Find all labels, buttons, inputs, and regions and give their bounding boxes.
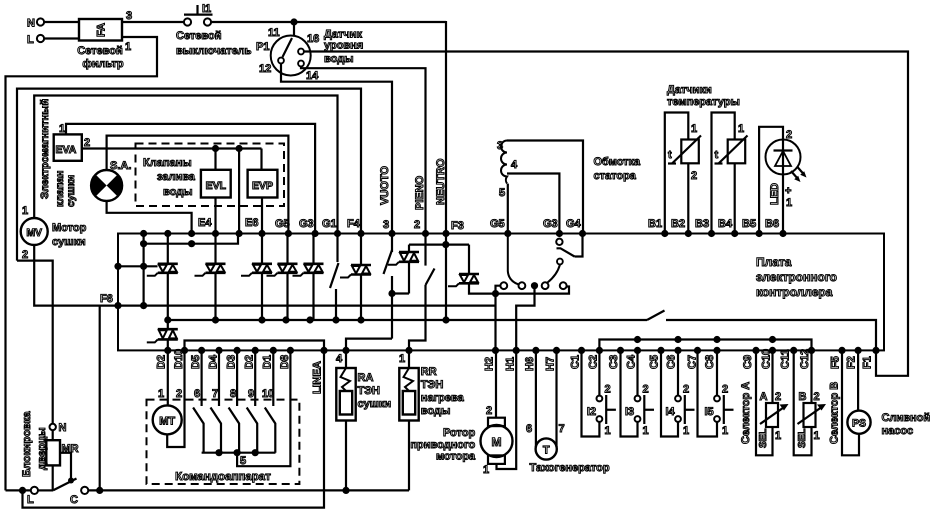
node x144 sub-rail — [140, 240, 147, 247]
wire thermistor1 to B2 — [687, 163, 689, 232]
node cam rail — [215, 449, 222, 456]
node top bus B2 — [685, 230, 692, 237]
wire gate link V-P — [392, 292, 409, 294]
svg-text:Обмотка: Обмотка — [594, 156, 642, 168]
svg-text:выключатель: выключатель — [176, 45, 252, 57]
wire EVL bottom to E4 — [214, 198, 216, 233]
node top bus G1 — [334, 230, 341, 237]
terminal L door lock — [31, 487, 38, 494]
svg-text:7: 7 — [212, 388, 218, 400]
svg-text:1: 1 — [605, 425, 611, 437]
svg-text:H6: H6 — [524, 357, 536, 371]
node x144 y266 — [140, 263, 147, 270]
svg-text:NEUTRO: NEUTRO — [435, 158, 447, 205]
node rail2 G3 — [306, 316, 313, 323]
heater RR (water) — [408, 350, 410, 368]
node MR blade link — [68, 478, 74, 484]
svg-text:1: 1 — [643, 425, 649, 437]
svg-text:Тахогенератор: Тахогенератор — [530, 462, 610, 474]
svg-text:1: 1 — [786, 197, 792, 209]
svg-text:1: 1 — [722, 425, 728, 437]
svg-text:Селектор А: Селектор А — [740, 382, 752, 444]
svg-text:1: 1 — [775, 430, 781, 442]
svg-text:Сливной: Сливной — [882, 412, 931, 424]
svg-text:RA: RA — [358, 372, 374, 384]
timer dashed box (Командоаппарат) — [147, 400, 300, 484]
node top bus P2 — [422, 230, 429, 237]
node bottom bus H6 — [532, 347, 539, 354]
wire LINEA to L line — [23, 350, 325, 507]
svg-text:B1: B1 — [648, 218, 662, 230]
svg-text:C4: C4 — [626, 354, 638, 369]
drying motor MV — [21, 218, 48, 245]
node top bus G5s — [504, 230, 511, 237]
wire gate y266 segment — [118, 265, 158, 267]
node bottom bus D5 — [198, 347, 205, 354]
svg-text:LED: LED — [769, 183, 781, 205]
svg-text:температуры: температуры — [667, 96, 740, 108]
node RA bottom — [342, 487, 349, 494]
wire EVA pin1 to G3 — [66, 124, 315, 233]
rail2 switch blade — [647, 311, 665, 321]
wire T5 column — [312, 234, 314, 264]
svg-text:воды: воды — [421, 405, 451, 417]
svg-text:D1: D1 — [262, 355, 274, 369]
LED light arrows — [791, 167, 807, 183]
svg-text:фильтр: фильтр — [82, 58, 124, 70]
heater RA (drying) — [345, 350, 347, 368]
node bottom bus C6 — [674, 347, 681, 354]
node bottom bus C11 — [790, 347, 797, 354]
node top bus B3 — [708, 230, 715, 237]
stator select contact bank — [496, 282, 567, 291]
svg-text:1: 1 — [125, 41, 131, 53]
node bottom bus D10 — [181, 347, 188, 354]
wire C rail to heaters — [88, 489, 409, 491]
wire L to filter — [44, 37, 79, 39]
svg-text:7: 7 — [559, 423, 565, 435]
water inlet valves dashed box — [136, 144, 285, 207]
wire F3 triac out to contacts — [469, 283, 569, 293]
sub-rail gate feed from EVA2 — [144, 234, 238, 244]
svg-text:+: + — [785, 185, 791, 197]
wire contact arc to G3 area — [548, 265, 560, 283]
svg-text:5: 5 — [499, 187, 505, 199]
svg-text:D2: D2 — [156, 355, 168, 369]
switch I4 (C5-C6) — [661, 350, 678, 436]
node rail2 F3 — [442, 316, 449, 323]
node bottom bus C10 — [769, 347, 776, 354]
svg-text:электронного: электронного — [756, 270, 837, 284]
node bottom bus C12 — [808, 347, 815, 354]
svg-text:t: t — [715, 149, 719, 161]
svg-text:F2: F2 — [846, 356, 858, 369]
valve EVL — [201, 170, 231, 198]
svg-text:FA: FA — [96, 23, 108, 37]
svg-text:I3: I3 — [625, 406, 634, 418]
svg-text:сушки: сушки — [52, 236, 86, 248]
svg-text:C9: C9 — [742, 355, 754, 369]
node sub-rail — [769, 336, 776, 343]
svg-text:2: 2 — [691, 170, 697, 182]
wire T4 column — [286, 234, 288, 264]
svg-text:8: 8 — [230, 388, 236, 400]
svg-text:F1: F1 — [862, 356, 874, 369]
svg-text:G4: G4 — [566, 218, 582, 230]
svg-text:E4: E4 — [198, 217, 212, 229]
svg-text:1: 1 — [22, 205, 28, 217]
jumper D10-LINEA — [185, 341, 325, 351]
triac T5 (G3) — [293, 264, 324, 276]
wire N to filter — [44, 21, 79, 23]
svg-text:2: 2 — [605, 384, 611, 396]
node bottom bus RA4 — [342, 347, 349, 354]
svg-text:C3: C3 — [608, 355, 620, 369]
triac T7 (PIENO) — [388, 252, 419, 265]
wire jog to MR line — [17, 261, 53, 424]
svg-text:12: 12 — [259, 63, 271, 75]
svg-text:VUOTO: VUOTO — [379, 166, 391, 205]
svg-text:мотора: мотора — [436, 451, 476, 463]
svg-text:MV: MV — [26, 227, 42, 239]
wire EVP top — [260, 149, 262, 170]
triac T3 (E6) — [241, 264, 272, 276]
svg-text:2: 2 — [643, 384, 649, 396]
selector A (SEL) — [756, 350, 789, 455]
wire EVP bottom to E6 — [261, 198, 263, 233]
door lock coil MR — [52, 430, 54, 440]
cam contact at 273.3 — [265, 350, 276, 452]
wire T6 column — [360, 234, 362, 266]
node bottom bus F5 — [838, 347, 845, 354]
wire D2 to MT — [167, 350, 169, 405]
wire interior column x144 — [143, 234, 145, 306]
svg-text:EVP: EVP — [252, 180, 273, 192]
svg-text:Сетевой: Сетевой — [77, 45, 123, 57]
node rail2 E6 — [258, 316, 265, 323]
wire D10 to MT — [167, 350, 184, 447]
svg-text:I2: I2 — [587, 406, 596, 418]
wire I1 to node and NEUTRO corner — [211, 21, 446, 23]
svg-text:сушки: сушки — [65, 175, 77, 207]
svg-text:EVA: EVA — [56, 144, 77, 156]
svg-text:C8: C8 — [704, 355, 716, 369]
svg-text:4: 4 — [336, 353, 343, 365]
svg-text:В: В — [799, 391, 807, 403]
svg-text:3: 3 — [383, 219, 389, 231]
terminal C door lock — [81, 487, 88, 494]
node EVL top — [212, 145, 219, 152]
LED circuit B5-B6 — [759, 127, 783, 233]
svg-text:2: 2 — [84, 137, 90, 149]
svg-text:N: N — [59, 422, 67, 434]
svg-text:G1: G1 — [322, 218, 337, 230]
svg-text:Мотор: Мотор — [52, 222, 87, 234]
svg-text:2: 2 — [814, 391, 820, 403]
pressure switch P1 — [271, 22, 311, 76]
svg-text:I5: I5 — [705, 406, 714, 418]
svg-text:I1: I1 — [202, 3, 211, 15]
drain pump PS — [842, 350, 871, 455]
node bottom bus H7 — [553, 347, 560, 354]
contact circle G3 arc end — [557, 259, 563, 265]
svg-text:2: 2 — [22, 249, 28, 261]
switch I1 (mains switch) — [184, 5, 213, 26]
svg-text:Клапаны: Клапаны — [143, 157, 192, 169]
svg-text:L: L — [27, 494, 34, 506]
wire FA pin1 loop down left side — [6, 37, 158, 488]
node bottom bus D1 — [270, 347, 277, 354]
svg-text:2: 2 — [786, 129, 792, 141]
node sub-rail — [713, 336, 720, 343]
svg-text:статора: статора — [594, 170, 637, 182]
svg-text:F3: F3 — [451, 220, 464, 232]
svg-text:B5: B5 — [742, 218, 756, 230]
svg-text:Сетевой: Сетевой — [176, 30, 222, 42]
triac T6 (F4) — [340, 265, 371, 278]
svg-text:1: 1 — [814, 430, 820, 442]
node top bus B5 — [756, 230, 763, 237]
svg-text:D2: D2 — [244, 355, 256, 369]
svg-text:S.A.: S.A. — [110, 160, 131, 172]
wire P1 pin16 to F1 loop — [304, 52, 908, 376]
node H2 feed — [492, 290, 499, 297]
node bottom bus H1 — [513, 347, 520, 354]
wire coil bottom to G5s — [507, 184, 509, 233]
wire T3 column — [261, 234, 263, 264]
svg-text:Датчики: Датчики — [667, 84, 712, 96]
node L tap — [19, 487, 26, 494]
node rail2 G5 — [282, 316, 289, 323]
svg-text:1: 1 — [691, 123, 697, 135]
node bottom bus C3 — [617, 347, 624, 354]
node bottom bus C2 — [596, 347, 603, 354]
svg-text:2: 2 — [775, 391, 781, 403]
wire P1 pin12 to VUOTO — [281, 64, 392, 233]
triac T1 (drying) — [147, 264, 178, 276]
svg-text:Блокировка: Блокировка — [21, 411, 33, 477]
svg-text:C2: C2 — [588, 355, 600, 369]
node F3 jog — [442, 241, 449, 248]
sub-rail C2..C12 — [599, 340, 811, 351]
svg-text:залива: залива — [157, 171, 196, 183]
terminal N — [37, 18, 44, 25]
switch VUOTO internal — [391, 234, 393, 253]
wire EVA2 column to board — [238, 149, 240, 233]
wire contact center to H1 — [516, 289, 534, 350]
node bottom bus C4 — [634, 347, 641, 354]
svg-text:ТЭН: ТЭН — [421, 379, 444, 391]
node bottom bus D4 — [215, 347, 222, 354]
wire MV pin2 to F6 rail — [34, 245, 495, 306]
svg-text:H1: H1 — [505, 357, 517, 371]
svg-text:LINEA: LINEA — [312, 361, 324, 394]
node bottom bus C5 — [657, 347, 664, 354]
wire T2 column — [214, 234, 216, 264]
switch PIENO lower — [424, 245, 426, 266]
node cam rail — [252, 449, 259, 456]
wire thermistor2 to B4 — [734, 163, 736, 232]
svg-text:11: 11 — [268, 27, 280, 39]
node x144 F6 rail — [140, 302, 147, 309]
internal rail2 (switched line) — [168, 319, 647, 321]
svg-text:1: 1 — [738, 123, 744, 135]
wire VUOTO to RA terminal — [346, 339, 392, 351]
svg-text:D3: D3 — [226, 355, 238, 369]
door lock rail from left — [4, 488, 6, 490]
svg-text:1: 1 — [683, 425, 689, 437]
node bottom bus D2b — [252, 347, 259, 354]
svg-text:Командоаппарат: Командоаппарат — [175, 471, 271, 483]
svg-text:EVL: EVL — [206, 180, 227, 192]
svg-text:6: 6 — [194, 388, 200, 400]
node bottom bus C8 — [713, 347, 720, 354]
svg-text:B3: B3 — [695, 218, 709, 230]
svg-text:B2: B2 — [671, 218, 685, 230]
svg-text:3: 3 — [126, 10, 132, 22]
svg-text:14: 14 — [306, 70, 319, 82]
node bottom bus F1 — [872, 347, 879, 354]
svg-text:D4: D4 — [208, 354, 220, 369]
svg-text:А: А — [760, 391, 768, 403]
terminal N door lock — [50, 424, 56, 430]
svg-text:D8: D8 — [279, 355, 291, 369]
svg-text:ТЭН: ТЭН — [358, 385, 381, 397]
wire D8 to cam rail — [237, 350, 290, 466]
svg-text:2: 2 — [722, 384, 728, 396]
wire G5s to contact — [508, 235, 519, 285]
mains filter FA — [79, 19, 122, 41]
node sub-rail — [674, 336, 681, 343]
svg-text:N: N — [27, 18, 35, 30]
svg-text:C1: C1 — [570, 355, 582, 369]
node bottom bus LINEA — [320, 347, 327, 354]
wire T9 to D2 terminal — [167, 339, 169, 350]
node sub-rail — [634, 336, 641, 343]
svg-text:C10: C10 — [761, 349, 773, 369]
svg-text:9: 9 — [248, 388, 254, 400]
node bottom bus C9 — [752, 347, 759, 354]
wire S.A. top to G5 — [107, 136, 289, 233]
node gate sub-rail x192 — [188, 240, 195, 247]
node top bus B4 — [731, 230, 738, 237]
node EVA2 column top — [236, 145, 243, 152]
node top bus B1 — [661, 230, 668, 237]
svg-text:G5: G5 — [275, 218, 290, 230]
terminal L — [37, 35, 44, 42]
svg-text:F6: F6 — [100, 293, 113, 305]
svg-text:L: L — [27, 34, 34, 46]
wire T1 column — [167, 234, 169, 264]
node bottom bus C1 — [578, 347, 585, 354]
wire C up to F6 rail — [99, 306, 101, 491]
svg-text:МТ: МТ — [159, 416, 175, 428]
svg-text:E6: E6 — [245, 217, 258, 229]
node rail2 G1 — [332, 316, 339, 323]
svg-text:насос: насос — [882, 425, 914, 437]
node top bus E6 — [258, 230, 265, 237]
stator winding coil — [501, 141, 507, 184]
svg-text:P1: P1 — [256, 41, 269, 53]
svg-text:F4: F4 — [347, 218, 361, 230]
wire P1 pin14 to PIENO — [301, 67, 426, 233]
svg-text:D10: D10 — [173, 349, 185, 369]
svg-text:уровня: уровня — [324, 40, 363, 52]
wire coil top to G4 — [507, 141, 583, 233]
wire MV pin1 to G1 — [34, 96, 337, 233]
svg-text:Электромагнитный: Электромагнитный — [39, 99, 51, 199]
svg-text:2: 2 — [414, 219, 420, 231]
svg-text:1: 1 — [399, 353, 405, 365]
svg-text:F5: F5 — [830, 356, 842, 369]
svg-text:приводного: приводного — [410, 439, 475, 451]
node cam rail — [234, 449, 241, 456]
svg-text:PIENO: PIENO — [414, 175, 426, 210]
node top bus G3 — [312, 230, 319, 237]
switch I2 (C1-C2) — [582, 350, 600, 436]
svg-text:I4: I4 — [666, 406, 676, 418]
node rail2 E4 — [212, 316, 219, 323]
switch G1 internal — [336, 234, 338, 263]
svg-text:М: М — [492, 435, 502, 449]
svg-text:2: 2 — [486, 405, 492, 417]
thermistor circuit B1-B2 — [665, 113, 689, 233]
node bottom bus H2 — [492, 347, 499, 354]
svg-text:B6: B6 — [765, 218, 779, 230]
wire PIENO switched to RR terminal — [409, 285, 426, 350]
wire T7 output — [408, 262, 410, 294]
svg-text:H7: H7 — [545, 357, 557, 371]
triac T2 (E4) — [195, 264, 226, 276]
svg-text:нагрева: нагрева — [421, 392, 465, 404]
svg-text:C5: C5 — [649, 355, 661, 369]
rotor M of drive motor — [481, 350, 517, 469]
cam contact at 201.6 — [193, 350, 204, 452]
valve EVP — [248, 170, 278, 198]
svg-text:C12: C12 — [799, 349, 811, 369]
selector B (SEL) — [794, 350, 826, 455]
wire L to pivot — [38, 489, 53, 491]
wire coil tap to G3s — [507, 174, 559, 233]
svg-text:1: 1 — [483, 464, 489, 476]
node top bus V3 — [388, 230, 395, 237]
wire MR to pivot — [52, 465, 54, 490]
node top bus EVA2 — [236, 230, 243, 237]
node top bus B6 — [779, 230, 786, 237]
svg-text:D5: D5 — [190, 355, 202, 369]
switch I3 (C3-C4) — [621, 350, 638, 436]
svg-text:воды: воды — [163, 186, 193, 198]
svg-text:16: 16 — [307, 33, 319, 45]
node top bus n144 — [140, 230, 147, 237]
node bottom bus D3 — [234, 347, 241, 354]
wire H2 internal drop — [494, 294, 496, 351]
cam common rail 5 — [202, 452, 276, 454]
node F6 terminal — [114, 302, 121, 309]
cam contact at 219 — [211, 350, 222, 452]
cam contact at 237.1 — [229, 350, 240, 452]
svg-text:t: t — [668, 149, 672, 161]
door switch blade — [53, 479, 77, 491]
node top bus E4 — [212, 230, 219, 237]
svg-text:2: 2 — [176, 388, 182, 400]
wire EVA pin2 to valve tops — [82, 147, 262, 149]
wire LED to B6 — [782, 175, 784, 233]
node at P1 stem — [290, 18, 297, 25]
svg-text:Ротор: Ротор — [443, 427, 475, 439]
svg-text:SEL: SEL — [797, 429, 808, 448]
svg-text:сушки: сушки — [358, 398, 392, 410]
